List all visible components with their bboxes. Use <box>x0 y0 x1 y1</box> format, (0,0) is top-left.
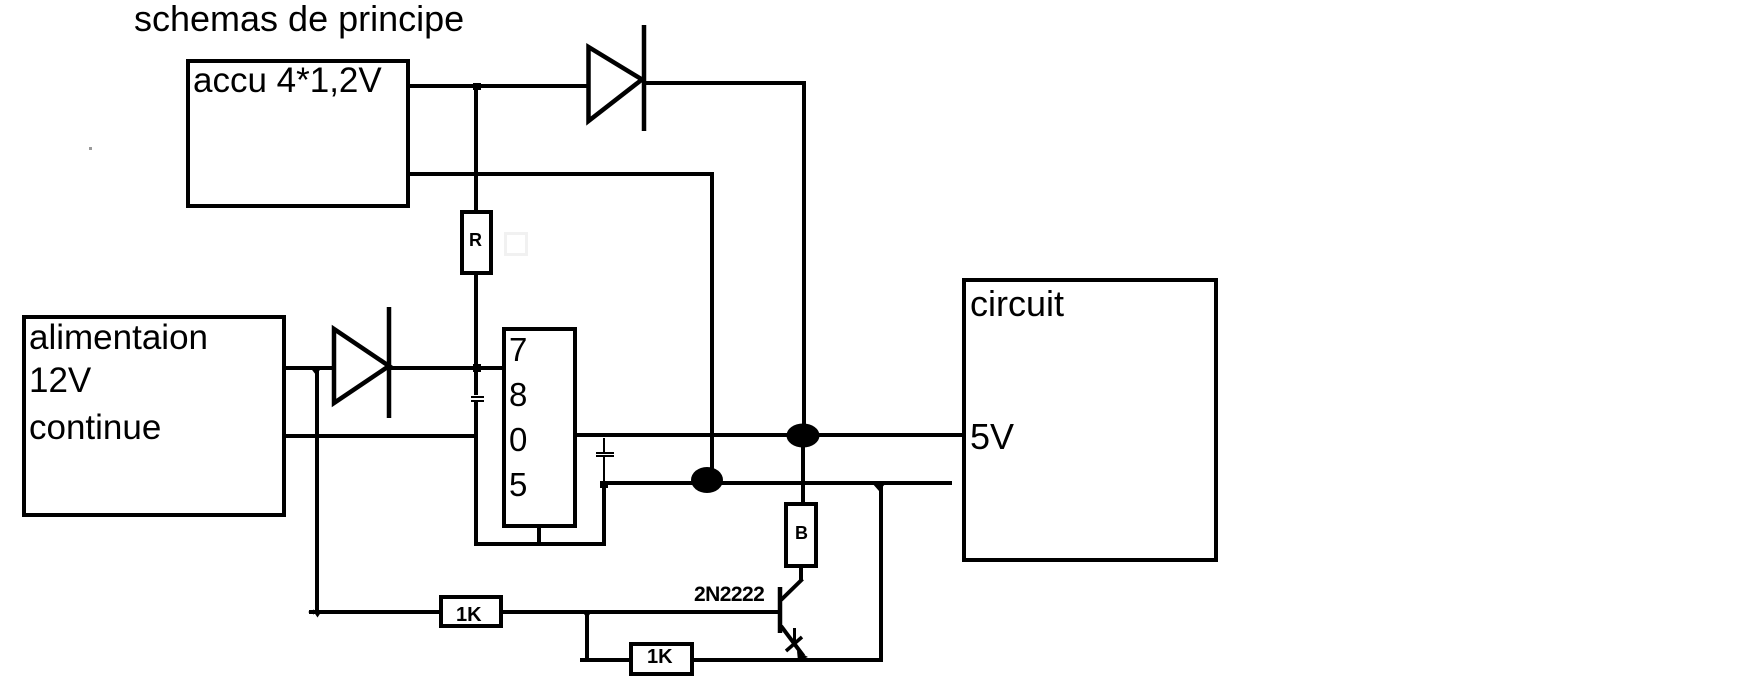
wire down from accu bottom to node B <box>710 172 714 472</box>
alimentation label line 1 <box>29 318 208 358</box>
wire J1 down to R <box>474 86 478 210</box>
ground rail under 7805 <box>474 542 606 546</box>
load box circuit <box>962 278 1218 562</box>
diode D2 triangle <box>334 329 389 403</box>
capacitor C1 top plate <box>471 396 484 398</box>
transistor Q1 emitter diagonal <box>781 626 804 656</box>
wire alim - to ground rail <box>284 434 476 438</box>
wire C2 down to corner node <box>603 457 605 484</box>
resistor B label <box>795 523 808 544</box>
junction dot node A <box>787 424 820 448</box>
resistor 1K base label <box>456 604 482 627</box>
capacitor C1 bottom plate <box>471 400 484 402</box>
battery label <box>193 61 382 101</box>
base wire 1K to transistor <box>503 610 779 614</box>
resistor R <box>460 210 493 275</box>
wire from alim wire down to base resistor rail <box>315 367 319 614</box>
emitter rail right segment <box>693 658 883 662</box>
circuit label <box>970 283 1064 325</box>
diode D1 triangle <box>589 47 643 121</box>
resistor 1K (emitter) <box>629 642 694 676</box>
resistor 1K emitter label <box>647 646 673 669</box>
wire node A down to resistor B <box>801 445 805 503</box>
wire C1 down to ground rail <box>474 402 478 546</box>
wire base rail down to emitter rail <box>585 612 589 660</box>
wire ground return rail to circuit <box>604 481 952 485</box>
junction dot node B <box>691 467 723 493</box>
arrow tick base wire left end <box>308 610 314 615</box>
resistor B <box>784 502 818 568</box>
wire from return rail down to emitter rail <box>879 484 883 662</box>
wire D1 cathode to corner <box>644 81 806 85</box>
node J1 junction <box>473 83 481 90</box>
speck artifact <box>89 147 92 150</box>
wire accu top output <box>408 84 589 88</box>
ghost artifact rectangle <box>504 232 528 256</box>
arrow tick on return rail <box>872 483 886 491</box>
wire alim + to diode D2 <box>284 366 335 370</box>
arrow tick on alim wire <box>309 366 323 375</box>
transistor label 2N2222 <box>694 583 764 607</box>
wire accu bottom output <box>408 172 714 176</box>
regulator 7805 label <box>509 327 527 507</box>
resistor 1K (base) <box>439 595 503 628</box>
regulator 7805 box <box>502 327 577 528</box>
wire 7805 ground pin stub <box>537 528 541 546</box>
arrow tick base rail junction <box>581 610 593 618</box>
diode D1 cathode bar <box>642 25 647 131</box>
diode D2 cathode bar <box>387 307 392 418</box>
emitter rail left segment <box>580 658 629 662</box>
resistor R label <box>469 230 482 251</box>
alimentation label line 2 <box>29 361 91 401</box>
alimentation label line 3 <box>29 408 161 448</box>
capacitor C2 top plate <box>596 452 614 454</box>
wire D2 cathode to 7805 input <box>391 366 502 370</box>
transistor Q1 emitter arrow tick <box>793 628 796 642</box>
node at input/R rail crossing <box>473 364 481 372</box>
transistor Q1 base bar <box>778 587 783 633</box>
wire corner down to node A <box>802 81 806 430</box>
wire R down to input rail <box>474 275 478 395</box>
wire corner down to ground rail <box>602 484 606 546</box>
battery box accu 4*1,2V <box>186 59 410 208</box>
node at C2 corner <box>600 481 608 488</box>
title: schemas de principe <box>134 0 464 40</box>
power source box alimentation 12V continue <box>22 315 286 517</box>
transistor Q1 emitter arrow cross stroke <box>786 637 802 651</box>
5V label <box>970 416 1014 458</box>
transistor Q1 collector diagonal <box>781 579 803 600</box>
wire B to collector <box>799 567 803 580</box>
base wire from rail to 1K <box>309 610 439 614</box>
wire 7805 output 5V rail <box>577 433 962 437</box>
transistor Q1 emitter arrowhead <box>797 651 808 661</box>
capacitor C2 bottom plate <box>596 455 614 457</box>
wire output down to capacitor C2 <box>603 438 605 452</box>
arrow tick V5 end at base rail <box>315 613 321 618</box>
